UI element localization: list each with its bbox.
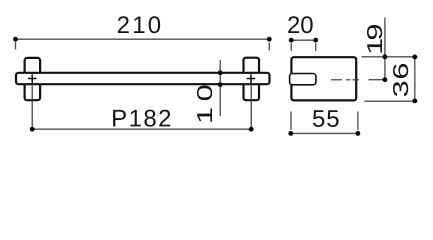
dimension 20: left dot [289, 38, 294, 43]
svg-text:P182: P182 [111, 105, 173, 132]
dimension 36: bottom dot [412, 99, 417, 104]
svg-text:10: 10 [193, 79, 217, 124]
dimension 20: left extension stub [290, 43, 292, 51]
dimension 10: rotated label [193, 79, 217, 124]
dimension 55: line [291, 132, 358, 134]
svg-text:55: 55 [312, 106, 340, 133]
dimension 20: right extension stub [315, 43, 317, 51]
dimension 36: vertical line [414, 57, 416, 101]
dimension 210: line [16, 38, 270, 40]
front view: horizontal bar [16, 73, 270, 84]
dimension 55: left dot [288, 131, 293, 136]
dimension 19: bottom dot [383, 77, 388, 82]
extension line from left hole center to P182 dimension [31, 79, 33, 129]
dimension 210: left extension stub [15, 42, 17, 50]
dimension 210: left dot [13, 37, 18, 42]
dimension P182: left dot [30, 127, 35, 132]
side view: centreline dash-dot [331, 79, 359, 81]
shared top extension line for 19 and 36 [362, 56, 418, 58]
svg-text:19: 19 [363, 25, 387, 55]
crosshair mark left hole [28, 74, 37, 83]
extension line from right hole center to P182 dimension [250, 79, 252, 129]
front view: left end block [25, 58, 40, 100]
svg-text:20: 20 [287, 12, 314, 39]
dimension P182: line [32, 128, 251, 130]
dimension 55: right extension line [357, 112, 359, 131]
dimension 55: left extension line [290, 112, 292, 131]
dimension 20: right dot [313, 38, 318, 43]
svg-text:210: 210 [117, 12, 164, 39]
front view: right end block [244, 58, 260, 100]
extension line from centreline to 19 dimension [369, 79, 385, 81]
dimension 19: vertical line [384, 18, 386, 80]
crosshair mark right hole [247, 74, 256, 83]
dimension 10: vertical line [219, 60, 221, 116]
dimension 20: line [291, 39, 316, 41]
dimension 210: right dot [267, 37, 272, 42]
dimension 36: rotated label [389, 62, 413, 98]
dimension 10: top dot [218, 70, 223, 75]
dimension 19: top dot [383, 54, 388, 59]
dimension 19: rotated label [363, 25, 387, 55]
side view: body rectangle [291, 57, 356, 100]
dimension 36: top dot [412, 55, 417, 60]
svg-text:36: 36 [389, 62, 413, 98]
dimension P182: right dot [249, 127, 254, 132]
bottom extension line for 36 [364, 100, 417, 102]
dimension 210: right extension stub [268, 43, 270, 51]
dimension 10: bottom dot [218, 82, 223, 87]
side view: tab (bar cross-section) [290, 74, 316, 85]
dimension 55: right dot [356, 131, 361, 136]
